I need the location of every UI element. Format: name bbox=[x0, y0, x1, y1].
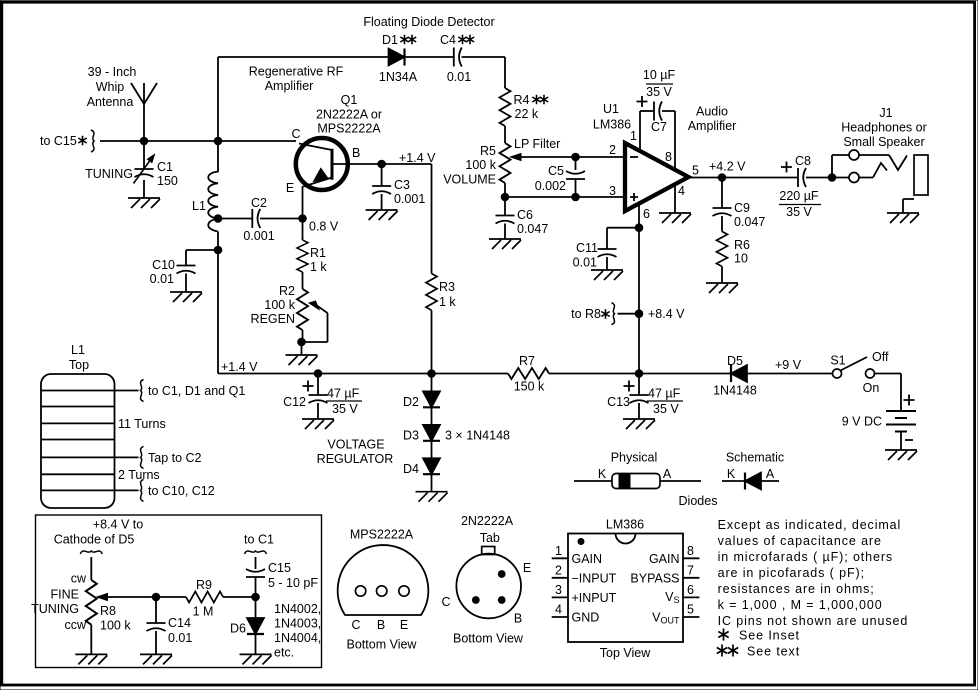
svg-text:100 k: 100 k bbox=[100, 619, 131, 633]
wire R2 bottom bbox=[302, 330, 303, 355]
svg-text:C12: C12 bbox=[283, 395, 306, 409]
svg-text:GND: GND bbox=[572, 611, 600, 625]
junction L1 bottom tap bbox=[214, 246, 222, 254]
wire C13 ground bbox=[638, 403, 640, 419]
svg-text:Bottom View: Bottom View bbox=[347, 638, 418, 652]
svg-text:Off: Off bbox=[872, 350, 889, 364]
wire R1 to R2 bbox=[302, 272, 304, 289]
physical diode leads bbox=[574, 480, 701, 482]
junction C5 pin3 bbox=[572, 193, 580, 201]
antenna symbol bbox=[131, 83, 157, 141]
junction antenna-L1 bbox=[214, 137, 222, 145]
svg-text:Amplifier: Amplifier bbox=[265, 79, 314, 93]
junction C15 node bbox=[252, 593, 260, 601]
svg-text:0.01: 0.01 bbox=[573, 256, 597, 270]
resistor R5 potentiometer bbox=[500, 143, 511, 183]
svg-text:35 V: 35 V bbox=[646, 85, 672, 99]
svg-text:See Inset: See Inset bbox=[739, 629, 800, 643]
L1 winding turns lines bbox=[41, 391, 139, 491]
svg-text:R9: R9 bbox=[196, 578, 212, 592]
svg-text:R5: R5 bbox=[480, 144, 496, 158]
pot R2 wiper bbox=[309, 301, 319, 310]
svg-text:BYPASS: BYPASS bbox=[630, 572, 679, 586]
svg-text:2: 2 bbox=[609, 143, 616, 157]
svg-text:C10: C10 bbox=[152, 258, 175, 272]
svg-text:5: 5 bbox=[687, 603, 694, 617]
label C8 plus bbox=[781, 162, 792, 173]
svg-text:0.047: 0.047 bbox=[517, 222, 548, 236]
svg-text:GAIN: GAIN bbox=[649, 552, 680, 566]
LM386 DIP body bbox=[568, 534, 683, 643]
svg-text:C4: C4 bbox=[440, 33, 456, 47]
wire C6 ground bbox=[504, 224, 506, 240]
svg-text:Q1: Q1 bbox=[341, 93, 358, 107]
svg-text:Cathode of D5: Cathode of D5 bbox=[54, 533, 135, 547]
svg-text:6: 6 bbox=[643, 207, 650, 221]
wire emitter bbox=[302, 186, 304, 219]
svg-text:C8: C8 bbox=[795, 154, 811, 168]
svg-text:1N34A: 1N34A bbox=[379, 70, 418, 84]
wire S1 to battery bbox=[875, 374, 902, 412]
wire pin4 ground bbox=[674, 185, 676, 213]
wire battery to ground bbox=[900, 432, 902, 451]
wire R3 top bbox=[431, 164, 433, 274]
svg-text:100 k: 100 k bbox=[264, 298, 295, 312]
svg-text:REGULATOR: REGULATOR bbox=[317, 452, 394, 466]
svg-text:1 M: 1 M bbox=[193, 605, 214, 619]
wire D2 to D3 bbox=[431, 408, 433, 425]
svg-text:1N4004,: 1N4004, bbox=[274, 631, 321, 645]
wire to C3 bbox=[381, 164, 383, 186]
svg-text:22 k: 22 k bbox=[515, 107, 539, 121]
svg-text:MPS2222A: MPS2222A bbox=[317, 122, 381, 136]
wire C1 to ground bbox=[143, 180, 145, 198]
svg-text:R2: R2 bbox=[279, 284, 295, 298]
svg-text:FINE: FINE bbox=[51, 588, 79, 602]
junction base C3 bbox=[378, 160, 386, 168]
wire break to C15 bbox=[255, 557, 257, 569]
wire pin6 down bbox=[638, 203, 640, 374]
svg-text:to C1: to C1 bbox=[244, 533, 274, 547]
wire R7 to C13 node bbox=[549, 373, 731, 375]
ground under pin4 bbox=[659, 213, 691, 223]
physical diode body bbox=[612, 474, 660, 489]
svg-text:C15: C15 bbox=[268, 561, 291, 575]
physical diode band bbox=[619, 474, 630, 489]
svg-text:E: E bbox=[400, 618, 408, 632]
svg-text:C5: C5 bbox=[548, 164, 564, 178]
svg-text:1: 1 bbox=[630, 129, 637, 143]
svg-text:+4.2 V: +4.2 V bbox=[709, 160, 746, 174]
ground under C10 bbox=[170, 292, 202, 302]
svg-text:1 k: 1 k bbox=[310, 260, 327, 274]
svg-text:GAIN: GAIN bbox=[572, 552, 603, 566]
junction C13 node bbox=[635, 370, 643, 378]
svg-text:U1: U1 bbox=[603, 102, 619, 116]
svg-text:LP Filter: LP Filter bbox=[514, 137, 560, 151]
capacitor C11 bbox=[598, 249, 617, 257]
ground under C14 bbox=[140, 654, 172, 664]
svg-text:35 V: 35 V bbox=[786, 205, 812, 219]
svg-text:Tap to C2: Tap to C2 bbox=[148, 451, 202, 465]
junction R5 pin2 C5 bbox=[572, 153, 580, 161]
svg-text:cw: cw bbox=[71, 572, 87, 586]
svg-text:0.047: 0.047 bbox=[734, 215, 765, 229]
svg-text:to C15: to C15 bbox=[40, 134, 77, 148]
capacitor C12 bbox=[309, 395, 328, 403]
svg-text:C7: C7 bbox=[651, 120, 667, 134]
node to C1 D1 Q1 bbox=[141, 380, 144, 402]
svg-text:Except as indicated, decimal: Except as indicated, decimal bbox=[718, 518, 902, 532]
svg-text:39 - Inch: 39 - Inch bbox=[88, 65, 137, 79]
wire C11 branch bbox=[607, 228, 639, 249]
svg-text:LM386: LM386 bbox=[606, 518, 644, 532]
wire D6 ground bbox=[255, 634, 257, 654]
svg-text:1: 1 bbox=[555, 544, 562, 558]
svg-text:A: A bbox=[663, 467, 672, 481]
svg-text:+1.4 V: +1.4 V bbox=[399, 151, 436, 165]
svg-text:REGEN: REGEN bbox=[251, 312, 295, 326]
svg-text:D5: D5 bbox=[727, 354, 743, 368]
wire break to R8 bbox=[90, 557, 92, 580]
svg-text:to C10, C12: to C10, C12 bbox=[148, 484, 215, 498]
svg-text:0.001: 0.001 bbox=[394, 192, 425, 206]
ground under D4 bbox=[416, 492, 448, 502]
svg-text:47 µF: 47 µF bbox=[648, 387, 681, 401]
resistor R3 bbox=[426, 274, 437, 311]
svg-text:C: C bbox=[291, 127, 300, 141]
svg-text:1N4148: 1N4148 bbox=[713, 384, 757, 398]
svg-text:Audio: Audio bbox=[696, 105, 728, 119]
svg-text:6: 6 bbox=[687, 583, 694, 597]
svg-text:C: C bbox=[441, 595, 450, 609]
wire bus to D2 bbox=[431, 374, 433, 392]
wire L1 tap to C2 bbox=[218, 218, 252, 220]
svg-text:35 V: 35 V bbox=[332, 402, 358, 416]
ground under C1 bbox=[128, 198, 160, 208]
svg-text:R8: R8 bbox=[100, 604, 116, 618]
wire node to D6 bbox=[255, 597, 257, 618]
svg-text:1N4002,: 1N4002, bbox=[274, 602, 321, 616]
MPS2222A leads bbox=[355, 586, 365, 596]
svg-text:2N2222A: 2N2222A bbox=[461, 514, 514, 528]
wire C3 to ground bbox=[381, 194, 383, 210]
ground under C12 bbox=[302, 419, 334, 429]
svg-text:1N4003,: 1N4003, bbox=[274, 617, 321, 631]
svg-text:to C1, D1 and Q1: to C1, D1 and Q1 bbox=[148, 384, 245, 398]
capacitor C9 bbox=[713, 208, 732, 216]
svg-text:Diodes: Diodes bbox=[679, 494, 718, 508]
MPS2222A body bbox=[338, 545, 429, 615]
svg-text:3: 3 bbox=[609, 184, 616, 198]
svg-text:Floating Diode Detector: Floating Diode Detector bbox=[363, 15, 494, 29]
junction jack node bbox=[828, 174, 836, 182]
diode D5 bbox=[731, 365, 747, 382]
diode legend schematic symbol bbox=[745, 473, 761, 490]
svg-text:Amplifier: Amplifier bbox=[688, 119, 737, 133]
op-amp U1 LM386 bbox=[625, 143, 689, 211]
svg-text:+9 V: +9 V bbox=[775, 358, 802, 372]
ground under R6 bbox=[706, 283, 738, 293]
resistor R2 bbox=[297, 289, 308, 330]
svg-text:C3: C3 bbox=[394, 178, 410, 192]
capacitor C14 bbox=[147, 623, 166, 631]
wire R8 ground bbox=[90, 625, 92, 655]
wire C14 to R9 bbox=[156, 596, 186, 598]
svg-text:C13: C13 bbox=[607, 395, 630, 409]
ground under R8 bbox=[75, 654, 107, 664]
label battery minus bbox=[905, 439, 913, 441]
pot R8 wiper arrow bbox=[97, 594, 108, 601]
wire R6 ground bbox=[721, 267, 723, 284]
capacitor C10 bbox=[177, 266, 196, 274]
wire C5 branch bbox=[575, 157, 577, 197]
svg-text:J1: J1 bbox=[879, 106, 892, 120]
svg-text:150 k: 150 k bbox=[514, 380, 545, 394]
jack J1 tip contact circle bbox=[849, 150, 859, 160]
svg-text:R3: R3 bbox=[439, 280, 455, 294]
svg-text:Schematic: Schematic bbox=[726, 451, 784, 465]
ground under D6 bbox=[240, 654, 272, 664]
junction C14 node bbox=[152, 593, 160, 601]
svg-text:220 µF: 220 µF bbox=[779, 189, 819, 203]
wire R5 bottom node bbox=[504, 183, 506, 216]
svg-text:Tab: Tab bbox=[480, 531, 500, 545]
svg-text:On: On bbox=[863, 381, 880, 395]
wire C10 to ground bbox=[185, 274, 187, 293]
svg-text:0.01: 0.01 bbox=[447, 70, 471, 84]
wire R3 bottom bbox=[431, 310, 433, 373]
wire C13 branch bbox=[638, 374, 640, 396]
junction R2 bottom bbox=[298, 338, 306, 346]
svg-text:Headphones or: Headphones or bbox=[841, 121, 926, 135]
svg-text:+1.4 V: +1.4 V bbox=[221, 360, 258, 374]
junction output C9 bbox=[718, 174, 726, 182]
svg-text:L1: L1 bbox=[71, 343, 85, 357]
wire C14 branch bbox=[155, 597, 157, 623]
svg-text:TUNING: TUNING bbox=[31, 602, 79, 616]
capacitor C8 bbox=[798, 168, 806, 187]
svg-text:to R8: to R8 bbox=[571, 307, 601, 321]
svg-text:D3: D3 bbox=[403, 429, 419, 443]
wire R4 to R5 bbox=[504, 126, 506, 143]
wire C11 ground bbox=[606, 257, 608, 270]
svg-text:2: 2 bbox=[555, 564, 562, 578]
svg-text:VOLUME: VOLUME bbox=[443, 173, 496, 187]
junction L1 tap C2 bbox=[214, 215, 222, 223]
svg-text:10: 10 bbox=[734, 252, 748, 266]
svg-text:5: 5 bbox=[692, 164, 699, 178]
resistor R1 bbox=[297, 240, 308, 272]
svg-text:Top View: Top View bbox=[600, 646, 651, 660]
svg-text:R6: R6 bbox=[734, 238, 750, 252]
node to C10 C12 bbox=[141, 479, 144, 501]
junction R5 bottom bbox=[501, 193, 509, 201]
svg-text:MPS2222A: MPS2222A bbox=[350, 528, 414, 542]
svg-text:10 µF: 10 µF bbox=[643, 68, 676, 82]
svg-text:0.001: 0.001 bbox=[243, 229, 274, 243]
capacitor C6 bbox=[496, 216, 515, 224]
wire jack tip spring bbox=[859, 155, 907, 170]
transistor Q1 bbox=[296, 138, 348, 190]
svg-text:k = 1,000 , M = 1,000,000: k = 1,000 , M = 1,000,000 bbox=[718, 598, 883, 612]
inductor L1 bbox=[208, 141, 218, 374]
svg-text:+8.4 V: +8.4 V bbox=[648, 307, 685, 321]
svg-text:Whip: Whip bbox=[96, 80, 125, 94]
wire Q1 base to node B bbox=[332, 163, 382, 165]
svg-text:C1: C1 bbox=[157, 160, 173, 174]
svg-text:ccw: ccw bbox=[64, 618, 87, 632]
wire pin1 bbox=[639, 111, 641, 152]
diode D2 bbox=[423, 391, 440, 407]
svg-text:resistances are in ohms;: resistances are in ohms; bbox=[718, 582, 875, 596]
svg-text:3: 3 bbox=[555, 583, 562, 597]
svg-text:LM386: LM386 bbox=[593, 118, 631, 132]
svg-text:C6: C6 bbox=[517, 208, 533, 222]
wire C9 branch bbox=[721, 178, 723, 209]
L1 winding form bbox=[41, 374, 115, 508]
svg-text:B: B bbox=[377, 618, 385, 632]
wire C14 ground bbox=[155, 631, 157, 654]
wire main bus bbox=[218, 373, 508, 375]
wire C7 left bbox=[640, 110, 654, 112]
capacitor C13 bbox=[630, 395, 649, 403]
inset box bbox=[36, 515, 322, 668]
svg-text:C14: C14 bbox=[168, 616, 191, 630]
capacitor C2 bbox=[252, 209, 260, 228]
svg-text:−INPUT: −INPUT bbox=[572, 572, 617, 586]
svg-text:150: 150 bbox=[157, 174, 178, 188]
2N2222A tab bbox=[482, 547, 495, 555]
svg-text:Top: Top bbox=[69, 358, 89, 372]
wire jack ring spring bbox=[859, 163, 887, 178]
ground under battery bbox=[885, 450, 917, 460]
svg-text:etc.: etc. bbox=[274, 646, 294, 660]
svg-text:K: K bbox=[598, 467, 607, 481]
svg-text:values of capacitance are: values of capacitance are bbox=[718, 534, 882, 548]
2N2222A leads bbox=[498, 571, 505, 578]
LM386 pin1 dot bbox=[578, 539, 584, 545]
wire C15 to node bbox=[255, 577, 257, 597]
wire L1 tap to C10 bbox=[186, 250, 218, 266]
svg-text:R1: R1 bbox=[310, 246, 326, 260]
svg-text:8: 8 bbox=[665, 150, 672, 164]
capacitor C1 variable bbox=[135, 169, 154, 177]
capacitor C7 bbox=[654, 102, 662, 121]
ground under C3 bbox=[366, 210, 398, 220]
resistor R4 bbox=[500, 88, 511, 126]
svg-text:C2: C2 bbox=[251, 196, 267, 210]
svg-text:K: K bbox=[727, 467, 736, 481]
junction bus D2 bbox=[428, 370, 436, 378]
svg-text:7: 7 bbox=[687, 564, 694, 578]
svg-text:0.002: 0.002 bbox=[535, 179, 566, 193]
svg-text:B: B bbox=[352, 146, 360, 160]
LM386 right pin stubs bbox=[683, 558, 699, 617]
junction emitter node bbox=[299, 215, 307, 223]
wire C9 to R6 bbox=[721, 216, 723, 232]
wire D3 to D4 bbox=[431, 441, 433, 458]
svg-text:Small Speaker: Small Speaker bbox=[843, 135, 924, 149]
wire node B to R3 corner bbox=[382, 163, 432, 165]
svg-text:C: C bbox=[351, 618, 360, 632]
wire C2 to emitter node bbox=[260, 218, 303, 220]
svg-text:4: 4 bbox=[555, 603, 562, 617]
label C7 plus bbox=[637, 96, 648, 107]
wire jack upper branch bbox=[832, 155, 849, 178]
2N2222A body bbox=[456, 554, 521, 619]
switch S1 bbox=[833, 369, 842, 378]
junction +8.4V node bbox=[635, 310, 643, 318]
svg-text:2N2222A or: 2N2222A or bbox=[316, 108, 382, 122]
svg-text:3 × 1N4148: 3 × 1N4148 bbox=[445, 429, 510, 443]
junction pin6 C11 bbox=[635, 224, 643, 232]
wire C8 to jack node bbox=[806, 177, 849, 179]
label battery plus bbox=[904, 395, 915, 406]
ground under C13 bbox=[623, 419, 655, 429]
node Tap to C2 bbox=[141, 446, 144, 468]
svg-text:100 k: 100 k bbox=[465, 158, 496, 172]
svg-text:0.01: 0.01 bbox=[150, 272, 174, 286]
ground under C11 bbox=[591, 270, 623, 280]
svg-text:in microfarads ( µF); others: in microfarads ( µF); others bbox=[718, 550, 894, 564]
ground under R2 bbox=[286, 355, 318, 365]
resistor R9 bbox=[186, 592, 223, 603]
capacitor C4 bbox=[454, 48, 462, 67]
capacitor C3 bbox=[372, 186, 391, 194]
diode D6 bbox=[247, 618, 264, 634]
wire antenna node horizontal bbox=[100, 140, 296, 142]
svg-text:VOLTAGE: VOLTAGE bbox=[327, 438, 384, 452]
svg-text:47 µF: 47 µF bbox=[327, 387, 360, 401]
wire pin3 line bbox=[505, 196, 625, 198]
svg-text:D2: D2 bbox=[403, 395, 419, 409]
wire R9 to C15 node bbox=[223, 596, 256, 598]
svg-text:C9: C9 bbox=[734, 201, 750, 215]
svg-text:TUNING: TUNING bbox=[85, 167, 133, 181]
wire left riser to top bus bbox=[217, 57, 219, 141]
node inset top break bbox=[80, 551, 102, 554]
svg-text:Antenna: Antenna bbox=[87, 95, 134, 109]
svg-text:IC pins not shown are unused: IC pins not shown are unused bbox=[718, 614, 909, 628]
diode D1 bbox=[389, 49, 405, 66]
jack J1 ring contact circle bbox=[849, 173, 859, 183]
svg-text:4: 4 bbox=[678, 184, 685, 198]
pot R5 wiper arrow bbox=[511, 154, 522, 161]
wire jack sleeve to ground bbox=[903, 199, 914, 213]
ground under jack bbox=[887, 213, 919, 223]
svg-text:are in picofarads ( pF);: are in picofarads ( pF); bbox=[718, 566, 865, 580]
resistor R6 bbox=[717, 232, 728, 267]
resistor R8 potentiometer bbox=[86, 580, 97, 625]
svg-text:L1: L1 bbox=[192, 199, 206, 213]
svg-text:D4: D4 bbox=[403, 462, 419, 476]
svg-text:B: B bbox=[514, 612, 522, 626]
svg-text:1 k: 1 k bbox=[439, 295, 456, 309]
svg-text:A: A bbox=[766, 467, 775, 481]
wire emitter to R1 bbox=[302, 219, 304, 241]
svg-text:D6: D6 bbox=[230, 622, 246, 636]
svg-text:R4: R4 bbox=[514, 93, 530, 107]
LM386 left pin stubs bbox=[552, 558, 568, 617]
svg-text:+8.4 V to: +8.4 V to bbox=[93, 518, 143, 532]
svg-text:S1: S1 bbox=[830, 354, 845, 368]
svg-text:D1: D1 bbox=[382, 33, 398, 47]
svg-text:Physical: Physical bbox=[611, 451, 658, 465]
wire top bus bbox=[218, 57, 505, 88]
diode D3 bbox=[423, 425, 440, 441]
svg-text:5 - 10 pF: 5 - 10 pF bbox=[268, 576, 318, 590]
